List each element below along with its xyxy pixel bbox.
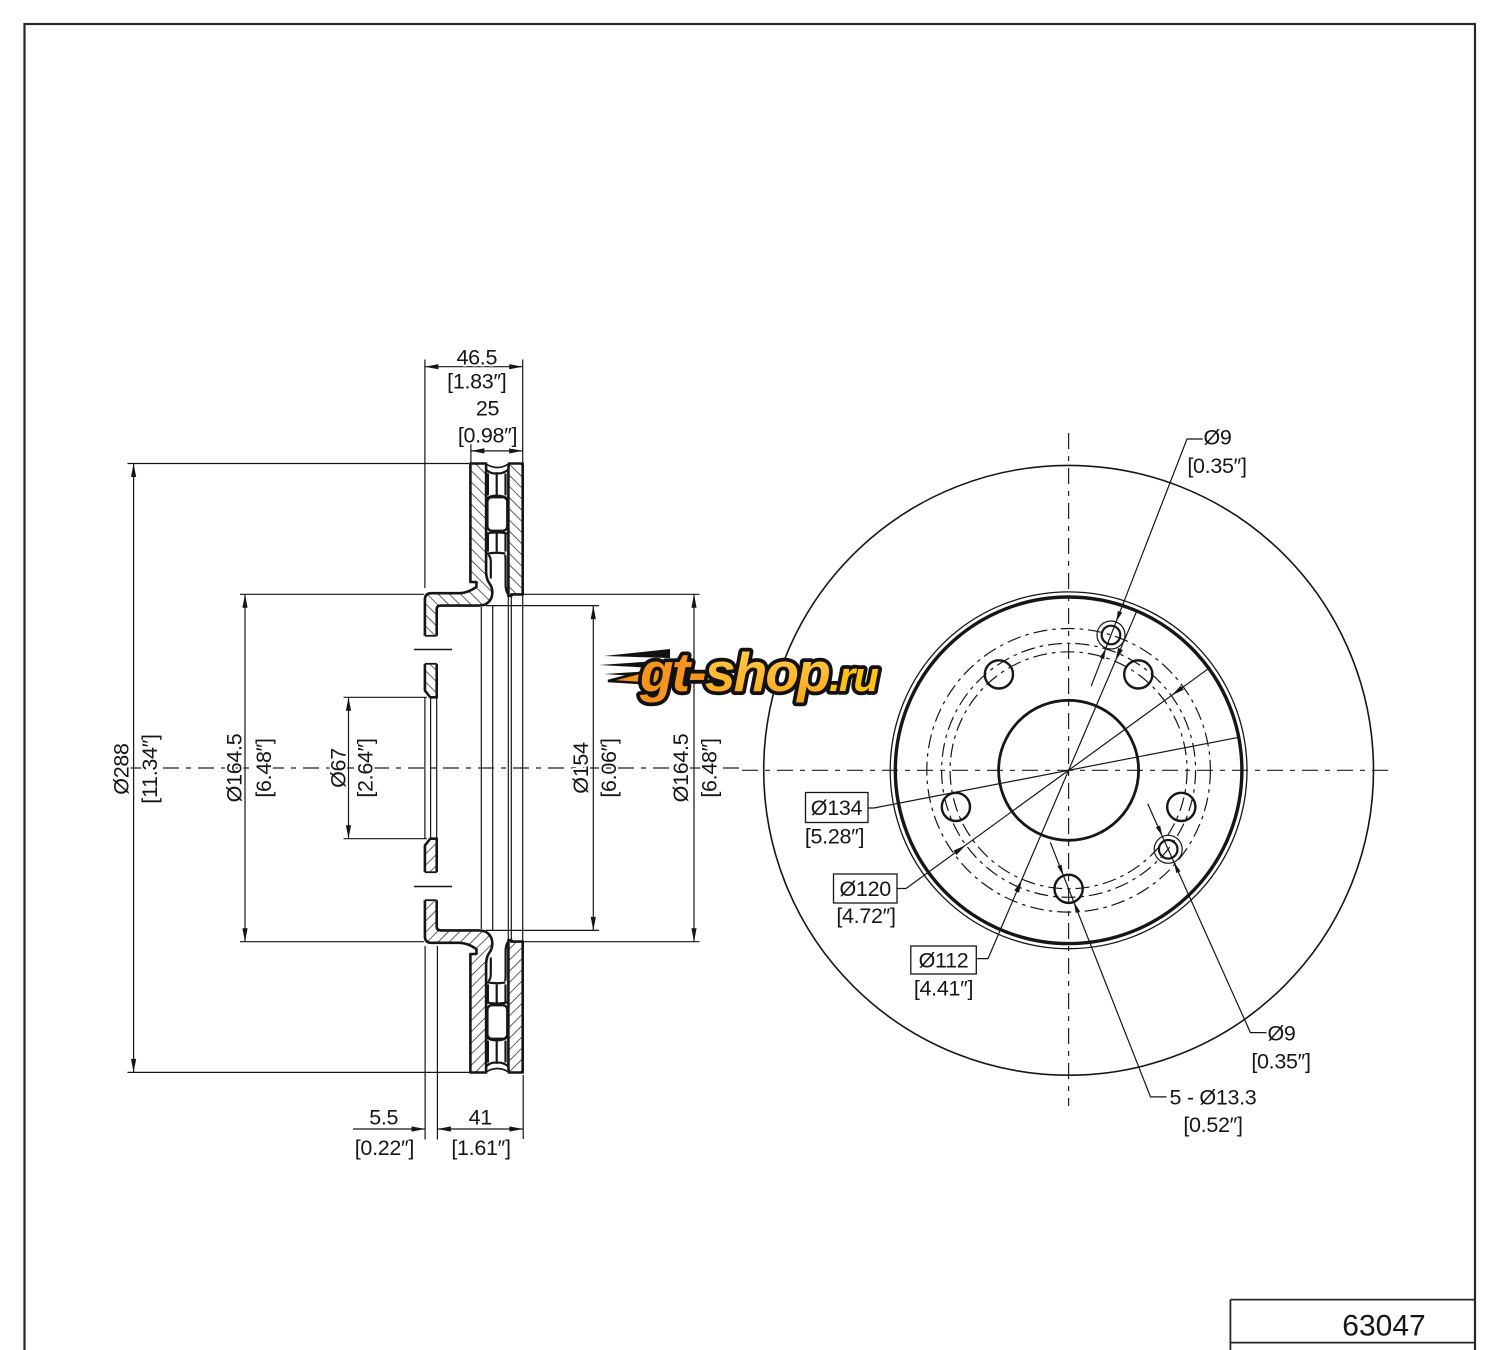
svg-text:63047: 63047 bbox=[1342, 1310, 1425, 1343]
centre hole bbox=[999, 700, 1139, 840]
svg-text:5 - Ø13.3: 5 - Ø13.3 bbox=[1170, 1086, 1257, 1110]
O9 pin hole top (double circle) bbox=[1097, 621, 1125, 649]
svg-text:[1.83″]: [1.83″] bbox=[447, 370, 506, 394]
svg-text:46.5: 46.5 bbox=[456, 345, 497, 369]
svg-text:Ø112: Ø112 bbox=[919, 949, 969, 973]
leader 5-O13.3 bbox=[1050, 842, 1166, 1097]
svg-text:[1.61″]: [1.61″] bbox=[451, 1136, 510, 1160]
leader lines bbox=[868, 439, 1266, 1097]
ext lines O288 bbox=[128, 463, 470, 465]
svg-text:[4.72″]: [4.72″] bbox=[836, 904, 895, 928]
O9 pin hole lower right (double circle) bbox=[1154, 835, 1182, 863]
svg-text:Ø164.5: Ø164.5 bbox=[223, 733, 247, 802]
svg-text:[0.52″]: [0.52″] bbox=[1183, 1113, 1242, 1137]
label boxes bbox=[806, 793, 977, 975]
leader O9 top bbox=[1091, 439, 1203, 686]
svg-text:[0.22″]: [0.22″] bbox=[355, 1136, 414, 1160]
DIMENSIONS left view bbox=[128, 360, 700, 1140]
ext lines O164.5 left bbox=[240, 593, 424, 595]
outer disc circle bbox=[764, 465, 1374, 1075]
svg-text:Ø134: Ø134 bbox=[811, 796, 863, 820]
svg-text:Ø154: Ø154 bbox=[569, 742, 593, 794]
centre hole silhouette lines bbox=[425, 697, 437, 838]
MAIN_CENTERLINE bbox=[128, 433, 1390, 1106]
leader O112 bbox=[976, 611, 1137, 959]
5 bolt holes O13.3 bbox=[942, 660, 1196, 903]
svg-text:[0.35″]: [0.35″] bbox=[1187, 454, 1246, 478]
leader O134 bbox=[868, 737, 1239, 808]
bottom dims bbox=[424, 946, 426, 1140]
leader O120 bbox=[897, 668, 1209, 888]
svg-text:[4.41″]: [4.41″] bbox=[914, 977, 973, 1001]
svg-text:Ø67: Ø67 bbox=[327, 748, 351, 788]
ext lines O154 bbox=[486, 605, 599, 607]
ext lines O67 bbox=[344, 696, 428, 698]
bolt circle dash-dot O120 bbox=[942, 643, 1196, 897]
svg-text:[2.64″]: [2.64″] bbox=[354, 738, 378, 797]
LOGO gt-shop.ru watermark bbox=[599, 641, 878, 703]
svg-text:Ø288: Ø288 bbox=[110, 743, 134, 795]
dim line 46.5 bbox=[425, 366, 523, 368]
svg-text:gt-shop.ru: gt-shop.ru bbox=[639, 641, 878, 703]
dim line 25 bbox=[471, 450, 523, 452]
svg-text:Ø164.5: Ø164.5 bbox=[669, 733, 693, 802]
mid-section silhouette verticals bbox=[481, 594, 522, 941]
svg-text:Ø9: Ø9 bbox=[1267, 1022, 1295, 1046]
svg-text:[0.35″]: [0.35″] bbox=[1251, 1050, 1310, 1074]
leader arrowheads bbox=[953, 611, 1183, 913]
svg-text:25: 25 bbox=[476, 397, 500, 421]
right view labels bbox=[805, 426, 1311, 1137]
leader O9 bottom bbox=[1148, 804, 1267, 1033]
hat rim thick circle bbox=[895, 597, 1242, 944]
svg-text:[6.06″]: [6.06″] bbox=[597, 738, 621, 797]
hat rim thin circle bbox=[890, 592, 1247, 949]
dimension texts left view bbox=[110, 345, 722, 1160]
bolt circle dash-dot O134 bbox=[927, 629, 1211, 913]
bolt circle dash-dot O112 bbox=[950, 652, 1187, 889]
svg-text:[0.98″]: [0.98″] bbox=[458, 424, 517, 448]
ext lines O164.5 right bbox=[512, 593, 700, 595]
svg-text:[6.48″]: [6.48″] bbox=[698, 738, 722, 797]
svg-text:Ø9: Ø9 bbox=[1203, 426, 1231, 450]
svg-text:[6.48″]: [6.48″] bbox=[252, 738, 276, 797]
lower band (mirror) bbox=[414, 839, 523, 1073]
upper band bbox=[414, 464, 523, 698]
svg-text:41: 41 bbox=[469, 1105, 492, 1129]
svg-text:Ø120: Ø120 bbox=[839, 877, 891, 901]
extension lines top bbox=[424, 360, 426, 589]
title block bbox=[1230, 1300, 1474, 1350]
svg-text:5.5: 5.5 bbox=[369, 1105, 398, 1129]
svg-text:[11.34″]: [11.34″] bbox=[138, 734, 162, 803]
arrowheads left view bbox=[131, 364, 697, 1132]
svg-text:[5.28″]: [5.28″] bbox=[805, 825, 864, 849]
